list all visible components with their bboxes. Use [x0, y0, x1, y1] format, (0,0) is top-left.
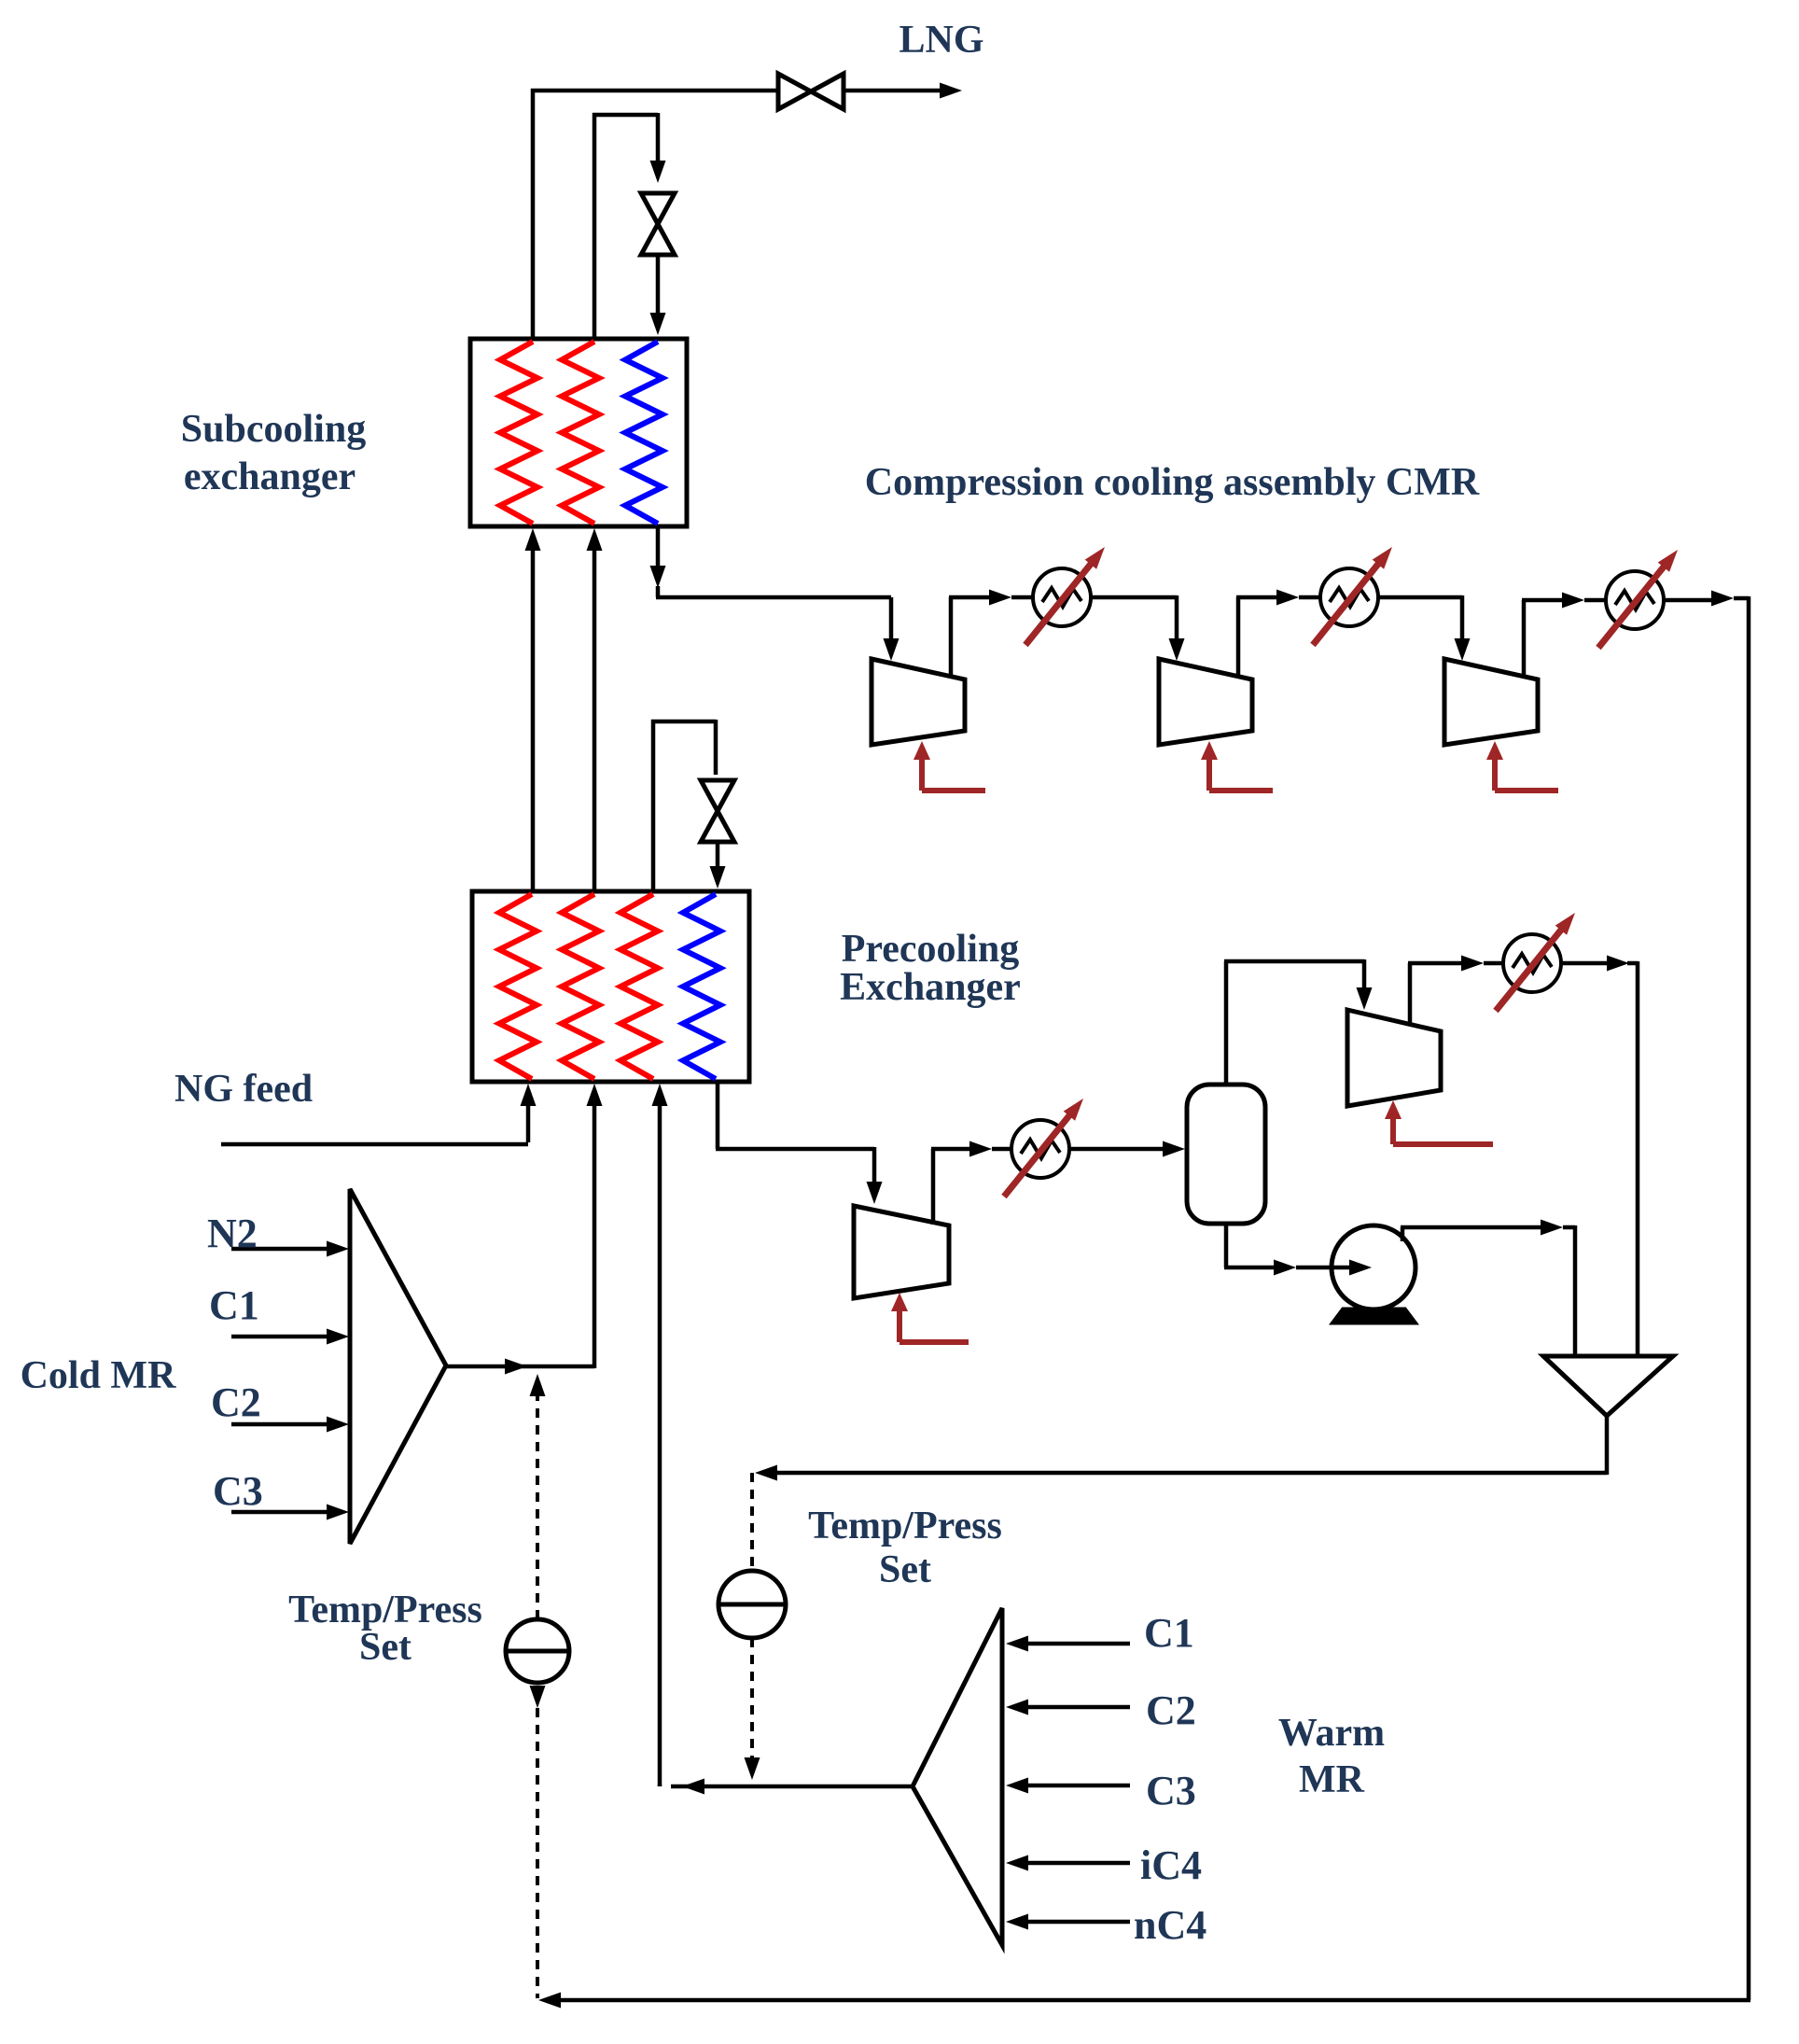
label C3 warm	[1146, 1768, 1196, 1813]
cooler E3 (aftercooler, circle)	[1598, 550, 1678, 648]
set circle T2 (Temp/Press set warm)	[718, 1571, 786, 1638]
wire P1 discharge to collector M3	[1401, 1220, 1575, 1357]
wire M3 outlet to warm set junction	[755, 1465, 1607, 1481]
wire nC4 feed	[1006, 1914, 1130, 1930]
label Subcooling exchanger	[181, 408, 366, 498]
subcooler hot pass 2 (MR, red coil)	[562, 342, 599, 524]
label Compression cooling assembly CMR	[865, 461, 1480, 504]
wire NG riser precooler to subcooler	[525, 528, 541, 891]
svg-text:Warm: Warm	[1278, 1712, 1385, 1755]
wire E4 to separator inlet	[1069, 1141, 1185, 1157]
wire K2 discharge to cooler E2	[1236, 590, 1319, 679]
label nC4	[1134, 1902, 1206, 1948]
wire C3 feed (warm)	[1006, 1778, 1130, 1794]
subcooling exchanger shell (box)	[470, 339, 687, 526]
compressor K1 (CMR stage 1)	[872, 659, 965, 745]
svg-text:C1: C1	[209, 1282, 259, 1328]
precooler cold pass (expanded warm MR, blue coil)	[683, 894, 720, 1079]
svg-text:Cold MR: Cold MR	[21, 1354, 177, 1397]
label Warm MR	[1278, 1712, 1385, 1801]
wire M1 outlet to precooler riser	[446, 1084, 603, 1375]
wire K3 discharge to cooler E3	[1522, 593, 1605, 679]
label NG feed	[174, 1068, 313, 1111]
wire E1 to K2 suction	[1091, 595, 1185, 661]
separator V-1 (vertical drum)	[1187, 1085, 1265, 1224]
wire NG product riser (subcooler top to LNG header)	[531, 89, 780, 339]
compressor K5 (warm MR stage 2)	[1347, 1010, 1441, 1106]
wire E5 to collector M3	[1561, 956, 1638, 1357]
wire subcooler cold-MR return to CMR suction	[650, 526, 899, 661]
wire K1 discharge to cooler E1	[949, 590, 1032, 679]
svg-text:C2: C2	[1146, 1687, 1196, 1733]
red power arrow to K3	[1486, 741, 1558, 791]
wire C2 feed (warm)	[1006, 1700, 1130, 1715]
svg-text:Exchanger: Exchanger	[840, 966, 1021, 1009]
wire N2 feed	[231, 1241, 349, 1257]
precooler hot pass 3 (warm MR, red coil)	[621, 894, 658, 1079]
svg-text:nC4: nC4	[1134, 1902, 1206, 1948]
label Temp/Press Set (cold)	[288, 1589, 482, 1669]
mixer M3 (collector funnel)	[1543, 1356, 1673, 1475]
precooler hot pass 2 (cold MR, red coil)	[562, 894, 599, 1079]
svg-text:MR: MR	[1299, 1758, 1365, 1801]
wire K5 discharge to cooler E5	[1408, 956, 1502, 1027]
subcooler hot pass 1 (NG, red coil)	[500, 342, 537, 524]
svg-text:exchanger: exchanger	[184, 455, 356, 498]
red power arrow to K2	[1201, 741, 1273, 791]
valve V1 (LNG letdown valve)	[778, 74, 844, 109]
wire M2 outlet to precooler riser	[652, 1084, 913, 1795]
label Temp/Press Set (warm)	[808, 1505, 1002, 1591]
label C3 cold	[213, 1468, 263, 1514]
red power arrow to K1	[913, 741, 985, 791]
wire separator vapour to K5 suction	[1224, 959, 1373, 1085]
dashed signal to set circle T2	[750, 1473, 754, 1571]
wire valve V3 outlet into precooler shell	[710, 842, 726, 889]
cooler E2 (aftercooler, circle)	[1313, 547, 1392, 645]
wire MR riser precooler to subcooler	[587, 528, 603, 891]
wire iC4 feed	[1006, 1855, 1130, 1871]
label LNG	[899, 19, 983, 62]
label C1 warm	[1144, 1610, 1194, 1656]
svg-text:Subcooling: Subcooling	[181, 408, 366, 451]
wire K4 discharge to cooler E4	[931, 1141, 1011, 1225]
compressor K4 (warm MR stage 1)	[854, 1206, 949, 1298]
svg-text:Set: Set	[359, 1626, 411, 1669]
cooler E4 (circle)	[1004, 1099, 1083, 1197]
wire subcooler MR loop to valve V2	[593, 113, 666, 339]
svg-text:iC4: iC4	[1140, 1842, 1202, 1888]
cooler E5 (circle)	[1496, 913, 1575, 1011]
wire E2 to K3 suction	[1378, 595, 1471, 661]
red power arrow to K5	[1385, 1100, 1493, 1144]
dashed signal M1 junction to set circle T1	[530, 1374, 546, 1619]
precooling exchanger shell (box)	[472, 891, 749, 1082]
compressor K3 (CMR stage 3)	[1444, 659, 1538, 745]
wire CMR recycle downcomer and bottom return	[538, 596, 1750, 2009]
pump P1 (circle with base and internal arrow)	[1332, 1225, 1416, 1323]
set circle T1 (Temp/Press set cold)	[506, 1619, 569, 1683]
precooler hot pass 1 (NG, red coil)	[499, 894, 537, 1079]
wire NG feed line	[221, 1084, 537, 1144]
svg-text:C2: C2	[211, 1379, 261, 1425]
red power arrow to K4	[891, 1293, 969, 1342]
valve V2 (subcooler JT valve)	[641, 193, 675, 255]
wire C2 feed (cold)	[231, 1417, 349, 1433]
svg-text:Temp/Press: Temp/Press	[808, 1505, 1002, 1547]
valve V3 (precooler JT valve)	[701, 780, 734, 842]
svg-text:Compression cooling assembly C: Compression cooling assembly CMR	[865, 461, 1480, 504]
svg-text:C1: C1	[1144, 1610, 1194, 1656]
label Precooling Exchanger	[840, 928, 1021, 1009]
wire precooler MR loop riser to valve V3	[651, 720, 716, 891]
dashed signal T2 to warm MR line	[745, 1638, 760, 1780]
wire precooler cold return to K4 suction	[716, 1082, 883, 1204]
svg-text:LNG: LNG	[899, 19, 983, 62]
label N2	[207, 1211, 258, 1256]
wire C1 feed (cold)	[231, 1329, 349, 1345]
wire valve V2 outlet into subcooler shell	[650, 255, 666, 335]
wire separator liquid to pump P1	[1224, 1224, 1372, 1276]
wire C3 feed (cold)	[231, 1505, 349, 1520]
label C1 cold	[209, 1282, 259, 1328]
compressor K2 (CMR stage 2)	[1159, 659, 1252, 745]
wire LNG product line	[842, 83, 962, 99]
label C2 cold	[211, 1379, 261, 1425]
wire E3 to CMR recycle downcomer	[1664, 591, 1749, 607]
mixer M1 (Cold MR makeup)	[350, 1189, 446, 1544]
svg-text:N2: N2	[207, 1211, 258, 1256]
label C2 warm	[1146, 1687, 1196, 1733]
svg-text:Precooling: Precooling	[842, 928, 1020, 971]
svg-text:NG feed: NG feed	[174, 1068, 313, 1111]
label Cold MR	[21, 1354, 177, 1397]
mixer M2 (Warm MR makeup)	[913, 1608, 1002, 1945]
label iC4	[1140, 1842, 1202, 1888]
subcooler cold pass (expanded MR, blue coil)	[625, 342, 662, 524]
svg-text:C3: C3	[1146, 1768, 1196, 1813]
wire C1 feed (warm)	[1006, 1636, 1130, 1652]
cooler E1 (aftercooler, circle)	[1025, 547, 1105, 645]
svg-text:Set: Set	[879, 1548, 931, 1591]
dashed signal T1 to bottom return	[530, 1686, 546, 1998]
svg-text:C3: C3	[213, 1468, 263, 1514]
